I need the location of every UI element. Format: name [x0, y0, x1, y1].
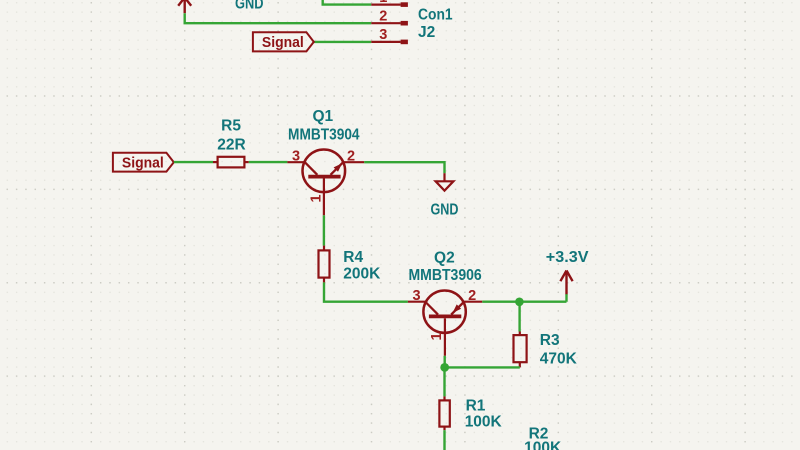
svg-text:100K: 100K [465, 414, 503, 431]
svg-text:22R: 22R [217, 136, 245, 153]
global label Signal (top) [253, 32, 314, 51]
wire under power arrow [565, 294, 567, 302]
svg-text:470K: 470K [540, 350, 578, 367]
transistor Q1 MMBT3904 [287, 150, 364, 216]
svg-text:3: 3 [413, 288, 421, 304]
svg-text:1: 1 [429, 332, 445, 340]
resistor R1 [439, 396, 449, 430]
resistor R5 [213, 157, 249, 168]
wire junction to R3 bottom [445, 366, 520, 368]
svg-text:J2: J2 [418, 24, 435, 41]
svg-text:100K: 100K [524, 439, 562, 450]
wire pin3 of J2 from Signal label [314, 41, 372, 43]
connector J2 pin 2 [371, 21, 408, 26]
svg-text:R3: R3 [540, 332, 560, 349]
svg-text:Q2: Q2 [434, 249, 455, 266]
svg-text:MMBT3906: MMBT3906 [408, 267, 482, 284]
wire Q1 emitter to GND [364, 162, 444, 173]
wire junction down to R1 [443, 367, 445, 396]
wire Q2 base lead to junction [444, 356, 446, 368]
svg-text:R1: R1 [466, 398, 486, 415]
svg-text:2: 2 [468, 288, 476, 304]
connector J2 pin 3 [371, 40, 408, 45]
connector J2 pin 1 [371, 2, 408, 7]
wire R4 to Q2 base [324, 282, 408, 301]
svg-text:Signal: Signal [122, 155, 164, 172]
ground symbol GND [436, 173, 454, 190]
svg-text:1: 1 [309, 194, 325, 202]
wire Q2 emitter to +3.3V [482, 301, 566, 303]
svg-text:200K: 200K [343, 266, 381, 283]
svg-text:Signal: Signal [262, 34, 304, 51]
power symbol +3.3V [560, 271, 572, 295]
junction at Q2 emitter / R3 [515, 298, 524, 307]
svg-text:Q1: Q1 [312, 108, 333, 125]
wire Signal to R5 [174, 161, 213, 163]
svg-text:Con1: Con1 [418, 7, 453, 24]
svg-text:3: 3 [292, 148, 300, 164]
svg-text:+3.3V: +3.3V [546, 249, 589, 266]
resistor R4 [319, 246, 330, 283]
svg-text:2: 2 [347, 148, 355, 164]
wire pin2 of J2 from power arrow [185, 13, 372, 23]
wire R5 to Q1 base [249, 161, 288, 163]
transistor Q2 MMBT3906 [408, 291, 482, 356]
junction at Q2 collector [440, 363, 449, 372]
wire R1 bottom off canvas [443, 430, 445, 450]
resistor R3 [514, 332, 527, 368]
global label Signal (middle) [113, 153, 174, 172]
svg-text:MMBT3904: MMBT3904 [288, 127, 360, 144]
svg-text:GND: GND [235, 0, 264, 12]
wire pin1 of J2 [323, 0, 372, 5]
svg-text:1: 1 [379, 0, 387, 6]
svg-text:2: 2 [379, 8, 387, 24]
svg-text:GND: GND [431, 202, 459, 219]
svg-text:R5: R5 [221, 118, 241, 135]
power symbol arrow (top, cut off) [178, 0, 191, 13]
wire Q1 pin1 to R4 [323, 215, 325, 245]
wire junction to R3 [518, 302, 520, 332]
svg-text:3: 3 [379, 27, 387, 43]
svg-text:R4: R4 [343, 249, 363, 266]
